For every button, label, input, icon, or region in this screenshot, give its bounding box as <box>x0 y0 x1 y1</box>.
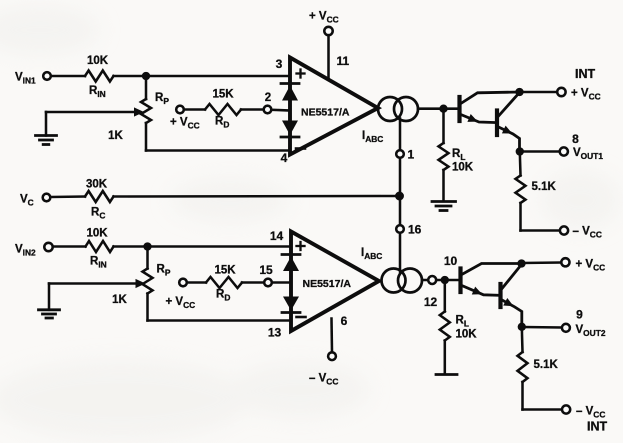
svg-text:10K: 10K <box>87 55 109 67</box>
svg-text:INT: INT <box>575 67 596 81</box>
node junction at RP top <box>143 73 149 79</box>
ground bar under RL (channel B) <box>436 373 457 376</box>
svg-text:1K: 1K <box>112 294 127 306</box>
node VOUT2 terminal pin 9 <box>522 308 606 338</box>
svg-text:9: 9 <box>576 308 583 322</box>
svg-text:14: 14 <box>270 229 284 243</box>
current mirror (output stage, channel B) <box>382 269 423 293</box>
node -VCC terminal INT (channel B) <box>523 405 608 433</box>
node +VCC terminal (channel B) <box>522 258 606 272</box>
svg-text:NE5517/A: NE5517/A <box>301 107 350 119</box>
svg-text:10K: 10K <box>452 162 474 174</box>
node VIN1 input terminal <box>15 72 51 86</box>
transistor Q2 (Darlington buffer, channel A) <box>497 93 520 152</box>
op-amp U1 NE5517/A (channel A) <box>290 58 378 155</box>
pin 6 -VCC supply terminal <box>309 314 348 386</box>
node +VCC terminal INT (channel A) <box>520 67 601 101</box>
resistor RIN 10K (channel B) <box>86 228 114 270</box>
minus input symbol U2 <box>297 316 306 319</box>
node VC control input terminal <box>20 194 50 208</box>
op-amp U2 NE5517/A (channel B) <box>291 232 379 332</box>
svg-text:12: 12 <box>424 295 438 309</box>
svg-text:8: 8 <box>572 132 579 146</box>
node emitter output junction (channel A) <box>517 149 523 155</box>
svg-text:15: 15 <box>259 263 273 277</box>
svg-text:13: 13 <box>268 326 282 340</box>
node collector junction (channel A) <box>517 89 523 95</box>
pin 15 terminal <box>259 263 291 286</box>
diode D3 (upper linearizing diode, channel B) <box>282 255 300 272</box>
svg-text:INT: INT <box>587 420 608 434</box>
node junction of RC wire and IABC line <box>396 193 402 199</box>
resistor RD 15K (channel A) <box>184 89 264 130</box>
plus input symbol U2 <box>297 242 305 250</box>
svg-text:15K: 15K <box>214 265 236 277</box>
svg-text:1: 1 <box>408 148 415 162</box>
svg-text:NE5517/A: NE5517/A <box>303 278 352 290</box>
resistor RIN 10K (channel A) <box>85 55 114 99</box>
svg-text:4: 4 <box>281 151 288 165</box>
svg-text:5.1K: 5.1K <box>534 359 559 371</box>
node at RL / buffer input (channel A) <box>441 106 447 112</box>
transistor Q3 (Darlington buffer, channel B) <box>461 264 522 296</box>
node +VCC terminal for RD (channel A) <box>170 106 200 131</box>
wire RIN to op-amp pin 3, with node <box>114 75 291 78</box>
plus input symbol U1 <box>297 70 305 78</box>
wire RIN B to op-amp pin 14 <box>114 245 292 248</box>
current mirror (output stage, channel A) <box>378 97 418 121</box>
resistor 5.1K (channel A) <box>516 152 557 231</box>
transistor Q1 (Darlington buffer, channel A) <box>460 92 520 123</box>
node +VCC terminal for RD (channel B) <box>166 279 196 310</box>
node VIN2 input terminal <box>15 243 53 257</box>
wire mirror A output to buffer <box>418 107 458 110</box>
potentiometer RP 1K (channel A) <box>108 76 169 151</box>
svg-text:15K: 15K <box>212 89 234 101</box>
node -VCC terminal (channel A) <box>521 226 602 240</box>
node emitter output junction (channel B) <box>519 324 525 330</box>
svg-text:11: 11 <box>337 54 350 68</box>
node VOUT1 terminal pin 8 <box>520 132 604 161</box>
wire VIN1 to RIN <box>51 75 85 78</box>
svg-text:5.1K: 5.1K <box>532 181 557 193</box>
wire RP B bottom to op-amp pin 13 <box>148 319 292 322</box>
node junction at RP B top <box>145 244 151 250</box>
wire VIN2 to RIN B <box>53 245 86 248</box>
minus input symbol U1 <box>296 147 305 150</box>
RP B wiper arrow from ground <box>49 279 146 288</box>
resistor RC 30K <box>50 179 113 221</box>
ground under RL (channel A) <box>432 202 456 211</box>
resistor RL 10K (channel B) <box>440 280 477 374</box>
ground (channel A input) <box>36 112 57 145</box>
pin 1 IABC terminal <box>396 119 414 197</box>
resistor RL 10K (channel A) <box>439 109 474 200</box>
diode D2 (lower linearizing diode, channel A) <box>281 121 299 138</box>
svg-text:1K: 1K <box>108 130 123 142</box>
pin 16 IABC terminal <box>396 196 421 272</box>
node collector junction (channel B) <box>519 261 525 267</box>
pin 12 output terminal <box>422 276 458 309</box>
ground (channel B input) <box>39 284 60 319</box>
svg-text:3: 3 <box>276 57 283 71</box>
potentiometer RP 1K (channel B) <box>112 247 171 321</box>
pin 2 terminal <box>264 92 290 113</box>
resistor 5.1K (channel B) <box>518 327 559 410</box>
pin 11 +VCC supply terminal <box>309 11 350 80</box>
svg-text:10: 10 <box>444 254 458 268</box>
svg-text:2: 2 <box>265 92 271 104</box>
node at RL / buffer input pin 10 (channel B) <box>442 254 458 283</box>
svg-text:10K: 10K <box>456 329 478 341</box>
svg-text:10K: 10K <box>86 228 108 240</box>
RP wiper arrow from ground <box>46 107 144 116</box>
diode D1 (upper linearizing diode, channel A) <box>281 84 299 101</box>
diode D4 (lower linearizing diode, channel B) <box>282 297 300 313</box>
svg-text:16: 16 <box>408 223 422 237</box>
svg-text:6: 6 <box>341 314 348 328</box>
transistor Q4 (Darlington buffer, channel B) <box>501 265 522 327</box>
svg-text:30K: 30K <box>86 179 108 191</box>
resistor RD 15K (channel B) <box>187 265 264 303</box>
wire RP bottom to op-amp pin 4 <box>146 149 290 152</box>
wire RC to IABC junction <box>114 195 400 198</box>
